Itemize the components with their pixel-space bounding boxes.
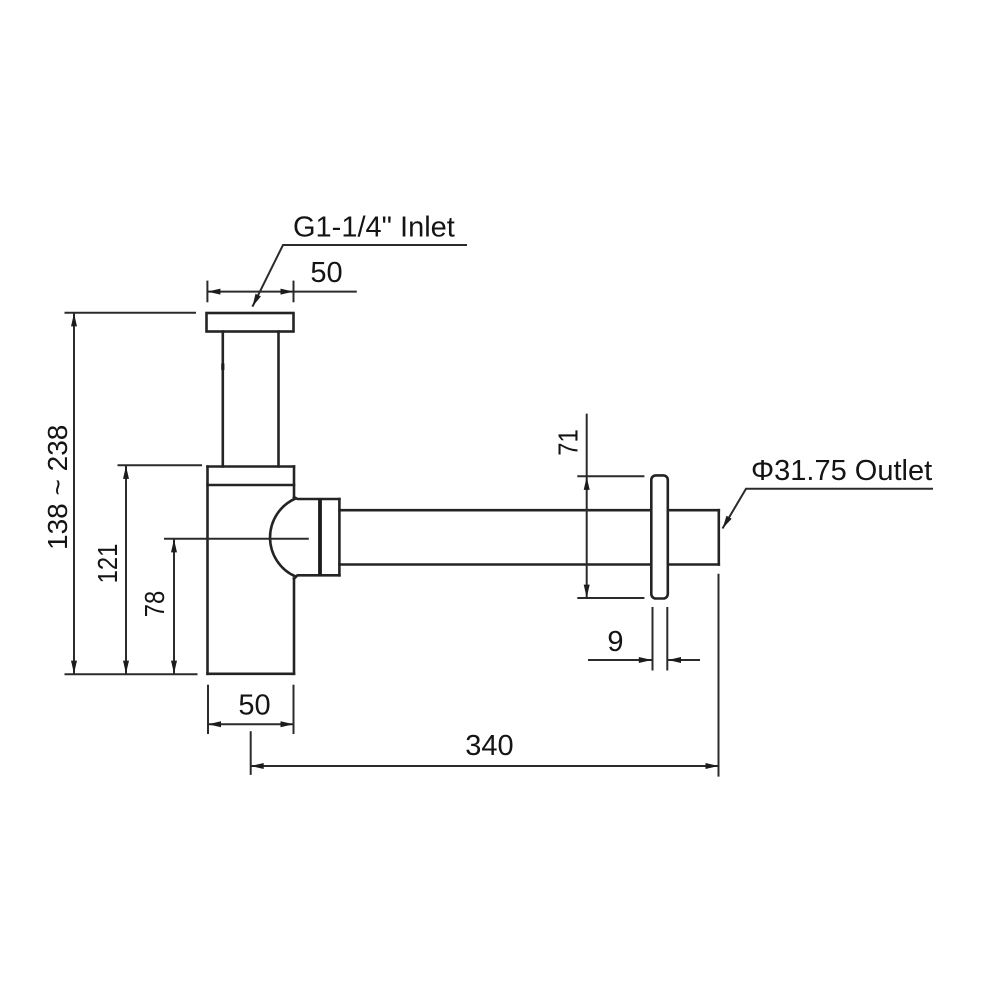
- dimension 50 bottom: right extension line: [293, 685, 295, 734]
- dimension 50 bottom: left extension line: [207, 685, 209, 734]
- svg-text:138 ~ 238: 138 ~ 238: [42, 425, 73, 550]
- inlet pipe left wall: [222, 332, 225, 467]
- dimension 50 bottom: left arrowhead: [208, 721, 221, 727]
- trap body left wall: [206, 467, 209, 674]
- dimension 78: top arrowhead: [171, 539, 177, 552]
- dimension 78: dimension line: [173, 539, 175, 673]
- dimension 9: left arrowhead pointing right: [639, 657, 652, 663]
- dimension 50 top: dimension line: [207, 291, 356, 293]
- dimension 71: bottom extension line: [577, 597, 644, 599]
- dimension 340: left arrowhead: [251, 763, 264, 769]
- dimension 340: right arrowhead: [706, 763, 719, 769]
- dimension 340: dimension line: [251, 765, 719, 767]
- dimension 138~238: top arrowhead: [71, 313, 77, 326]
- dimension 9: left dimension line: [588, 659, 652, 661]
- dimension 138~238: bottom arrowhead: [71, 661, 77, 674]
- trap body top edge: [208, 465, 295, 468]
- dimension 138~238: dimension line: [73, 313, 75, 673]
- svg-text:9: 9: [607, 626, 623, 658]
- dimension 50 bottom: right arrowhead: [281, 721, 294, 727]
- dimension 9: right dimension line: [668, 659, 700, 661]
- trap body bottom edge: [208, 672, 295, 675]
- svg-text:71: 71: [552, 429, 584, 455]
- dimension 138~238: bottom extension line: [65, 673, 198, 675]
- svg-text:78: 78: [138, 591, 170, 617]
- svg-text:G1-1/4" Inlet: G1-1/4" Inlet: [293, 212, 455, 244]
- trap body right wall upper: [293, 467, 296, 498]
- svg-text:Φ31.75 Outlet: Φ31.75 Outlet: [751, 455, 932, 487]
- dimension 9: right arrowhead pointing left: [668, 657, 681, 663]
- ball joint bulge arc: [270, 499, 295, 577]
- trap body right wall lower: [293, 579, 296, 674]
- dimension 50 bottom: dimension line: [208, 723, 294, 725]
- svg-text:121: 121: [91, 544, 123, 584]
- dimension 71: top arrowhead: [584, 477, 590, 490]
- dimension 121: top arrowhead: [123, 466, 129, 479]
- dimension 50 top: left arrowhead: [207, 289, 220, 295]
- trap body collar joint line: [208, 484, 295, 487]
- dimension 50 top: left extension tick: [206, 281, 208, 303]
- dimension 121: dimension line: [125, 466, 127, 674]
- dimension 71: dimension line with tail: [586, 414, 588, 598]
- dimension 121: top extension line: [118, 464, 203, 466]
- dimension 9: left extension line: [652, 607, 654, 671]
- coupling nut right face: [338, 499, 341, 575]
- joint boss bottom edge: [294, 575, 339, 578]
- top inlet flange: [207, 313, 294, 332]
- svg-text:340: 340: [465, 730, 513, 762]
- dimension 138~238: top extension line: [65, 312, 197, 314]
- joint boss top edge: [294, 497, 339, 499]
- outlet pipe top wall: [339, 509, 718, 512]
- outlet note leader arrowhead: [723, 516, 732, 529]
- outlet pipe bottom wall: [339, 563, 718, 566]
- inlet pipe right wall: [277, 332, 280, 467]
- dimension 121: bottom arrowhead: [123, 661, 129, 674]
- svg-text:50: 50: [238, 690, 270, 722]
- coupling nut heavy left face: [318, 499, 322, 575]
- dimension 78: bottom arrowhead: [171, 661, 177, 674]
- outlet note leader line: [723, 489, 934, 529]
- dimension 71: top extension line: [577, 475, 644, 477]
- dimension 50 top: right arrowhead: [281, 289, 294, 295]
- thread nick on inlet pipe: [221, 364, 224, 371]
- dimension 50 top: right extension tick: [293, 281, 295, 303]
- inlet note leader line: [252, 245, 467, 307]
- dimension 340: right extension line: [718, 574, 720, 777]
- dimension 9: right extension line: [666, 607, 668, 671]
- dimension 71: bottom arrowhead: [584, 585, 590, 598]
- outlet pipe end face: [717, 510, 720, 564]
- inlet note leader arrowhead: [252, 294, 261, 307]
- centerline of outlet: [164, 538, 309, 540]
- dimension 340: left extension line: [250, 731, 252, 775]
- wall flange escutcheon: [651, 475, 668, 598]
- svg-text:50: 50: [310, 257, 342, 289]
